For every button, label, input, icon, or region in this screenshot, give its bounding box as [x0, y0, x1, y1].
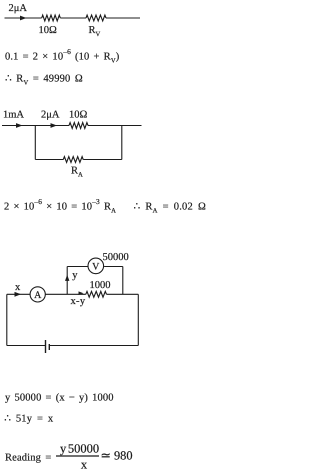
svg-text:2 × 10–6 × 10 = 10–3 RA: 2 × 10–6 × 10 = 10–3 RA — [4, 197, 116, 214]
svg-text:∴ RA = 0.02 Ω: ∴ RA = 0.02 Ω — [134, 202, 206, 215]
svg-text:1000: 1000 — [90, 280, 111, 291]
svg-text:10Ω: 10Ω — [69, 110, 88, 121]
svg-text:1mA: 1mA — [3, 110, 24, 121]
svg-text:x: x — [15, 282, 21, 293]
svg-text:50000: 50000 — [103, 252, 129, 263]
svg-text:∴ RV = 49990 Ω: ∴ RV = 49990 Ω — [5, 74, 83, 87]
svg-text:≃ 980: ≃ 980 — [101, 449, 133, 463]
svg-text:2μA: 2μA — [41, 110, 60, 121]
svg-text:10Ω: 10Ω — [39, 25, 58, 36]
svg-text:RV: RV — [89, 25, 101, 38]
svg-text:y 50000 = (x − y) 1000: y 50000 = (x − y) 1000 — [5, 393, 114, 404]
svg-text:y: y — [72, 270, 78, 281]
svg-text:0.1 = 2 × 10–6 (10 + RV): 0.1 = 2 × 10–6 (10 + RV) — [5, 47, 120, 64]
svg-text:x-y: x-y — [71, 296, 86, 307]
svg-text:x: x — [81, 458, 88, 472]
svg-text:y50000: y50000 — [60, 442, 99, 456]
svg-text:2μA: 2μA — [9, 3, 28, 14]
svg-text:Reading =: Reading = — [5, 453, 52, 464]
svg-text:V: V — [92, 262, 100, 273]
svg-text:∴ 51y = x: ∴ 51y = x — [4, 414, 54, 425]
svg-text:A: A — [34, 290, 42, 301]
svg-text:RA: RA — [71, 166, 83, 179]
